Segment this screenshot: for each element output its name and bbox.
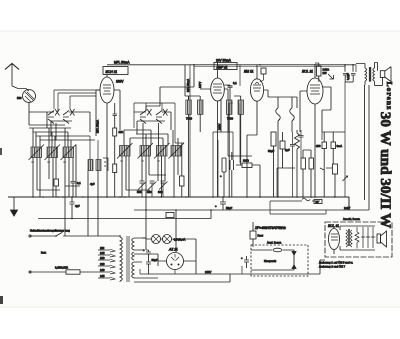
svg-text:ECH 11: ECH 11 xyxy=(106,70,118,74)
wire xyxy=(212,132,214,197)
wire xyxy=(142,238,149,250)
svg-text:kurz: kurz xyxy=(41,251,47,255)
wires around pair1 xyxy=(47,112,90,132)
coil block L3 xyxy=(63,147,74,158)
wire xyxy=(251,250,294,270)
wire xyxy=(185,65,189,100)
svg-text:10k: 10k xyxy=(119,130,124,134)
wire xyxy=(175,142,184,144)
wire xyxy=(310,85,320,94)
IF transformer A xyxy=(186,100,192,114)
svg-text:Änderung 1 auf ÖN 5 und w.: Änderung 1 auf ÖN 5 und w. xyxy=(319,260,353,264)
tube ECH11 xyxy=(100,77,114,103)
svg-text:6mA: 6mA xyxy=(337,144,343,148)
trimmer arrow pair 2b xyxy=(163,109,168,116)
svg-text:240V: 240V xyxy=(205,270,211,274)
resistor R1 xyxy=(54,179,59,186)
small coil risers xyxy=(90,136,98,160)
trimmer arrow pair 2 xyxy=(147,109,152,116)
svg-text:30: 30 xyxy=(47,160,50,164)
wire xyxy=(344,82,346,132)
wire xyxy=(345,81,353,83)
small box xyxy=(280,141,285,149)
triode electrodes pair 2b xyxy=(156,111,162,124)
transformer top wires xyxy=(356,63,378,69)
horizontal links xyxy=(213,103,252,163)
svg-text:AZ 11: AZ 11 xyxy=(168,248,178,252)
tuning arrow C2 xyxy=(138,143,154,159)
trimmer cap 1 xyxy=(138,181,147,197)
right side verticals xyxy=(365,85,370,210)
tuning arrow C4 xyxy=(169,143,185,159)
+ cap near dashed box xyxy=(244,256,249,268)
output transformer core xyxy=(369,67,371,82)
node wire from antenna coil xyxy=(29,112,47,125)
wire xyxy=(333,226,335,254)
resistor R-out2 xyxy=(309,158,314,169)
svg-text:7000: 7000 xyxy=(227,117,233,121)
terminal bracket xyxy=(103,158,108,171)
svg-text:0,1µF: 0,1µF xyxy=(346,73,350,80)
svg-text:0,15/0,95A: 0,15/0,95A xyxy=(55,266,68,270)
wire xyxy=(153,236,159,242)
svg-text:500: 500 xyxy=(147,190,152,194)
wire xyxy=(247,65,257,197)
wire xyxy=(149,174,166,176)
svg-text:7000: 7000 xyxy=(186,117,192,121)
wire xyxy=(114,173,116,198)
ground symbol xyxy=(11,197,18,216)
wire xyxy=(323,132,325,197)
svg-text:2W: 2W xyxy=(323,71,327,75)
wire xyxy=(189,96,201,197)
wire xyxy=(164,236,170,242)
tuning arrow L3 xyxy=(61,145,77,161)
left column lower component xyxy=(113,164,117,173)
wire xyxy=(322,87,331,132)
svg-text:30: 30 xyxy=(141,159,144,163)
svg-text:107V: 107V xyxy=(198,82,202,88)
wire xyxy=(331,234,338,240)
wire xyxy=(260,74,264,82)
svg-text:Anschl. Baust.: Anschl. Baust. xyxy=(343,217,360,221)
coil block C2 xyxy=(140,146,151,157)
wire xyxy=(349,229,350,246)
svg-text:30: 30 xyxy=(31,160,34,164)
svg-text:1µF: 1µF xyxy=(285,148,290,152)
wire xyxy=(282,132,284,168)
horizontal rails xyxy=(29,125,95,140)
zigzag resistor xyxy=(295,130,300,197)
tuning arrow L2 xyxy=(45,145,61,161)
wire xyxy=(293,250,295,270)
wire down from transformer xyxy=(364,81,367,85)
cap right of EBF xyxy=(224,85,232,100)
trimmer arrow pair 1 xyxy=(55,109,60,116)
wire xyxy=(134,274,230,282)
wire xyxy=(241,266,243,274)
svg-text:Änderung 2 und ÖN 7: Änderung 2 und ÖN 7 xyxy=(319,264,346,268)
wire xyxy=(218,63,222,198)
junction dot xyxy=(32,196,34,198)
svg-text:30 W und 30/II W: 30 W und 30/II W xyxy=(377,112,394,229)
svg-text:2x1V: 2x1V xyxy=(344,206,350,210)
svg-text:500: 500 xyxy=(137,190,142,194)
wire stub xyxy=(355,65,357,72)
junction dot xyxy=(167,253,184,270)
wire xyxy=(340,226,375,250)
diode detector xyxy=(328,74,334,79)
svg-text:4,5V/0,4A: 4,5V/0,4A xyxy=(174,238,186,242)
wire xyxy=(38,210,211,219)
wire xyxy=(314,65,316,197)
wire xyxy=(171,254,179,261)
wire xyxy=(229,96,241,197)
wire xyxy=(189,65,191,197)
svg-text:Ausf. Baust.: Ausf. Baust. xyxy=(267,241,282,245)
hook electrode b xyxy=(290,108,295,121)
tuning arrow C1 xyxy=(117,143,133,159)
svg-text:MFL 50mA: MFL 50mA xyxy=(186,79,190,92)
wire xyxy=(132,252,134,260)
wire xyxy=(106,75,108,198)
ground bus xyxy=(8,197,349,210)
wire xyxy=(194,66,345,68)
cap small x292 xyxy=(290,132,295,197)
svg-text:240Ω: 240Ω xyxy=(323,68,330,72)
EM11 anode cap box xyxy=(261,68,266,74)
svg-text:110: 110 xyxy=(100,246,105,250)
svg-text:30: 30 xyxy=(157,159,160,163)
triode electrodes pair 1b xyxy=(63,111,69,124)
svg-text:30: 30 xyxy=(120,159,123,163)
coil block L1 xyxy=(31,147,42,158)
riser wires to oscillator xyxy=(54,90,100,112)
antenna coil xyxy=(23,90,36,103)
wire xyxy=(110,249,115,280)
wire xyxy=(277,168,295,197)
junction dot xyxy=(171,264,173,266)
wire xyxy=(230,152,234,197)
wire xyxy=(253,82,261,91)
svg-text:25: 25 xyxy=(316,200,319,204)
trimmer cap 3 xyxy=(159,181,168,197)
wire xyxy=(320,168,332,170)
svg-text:Blaupunkt: Blaupunkt xyxy=(264,259,276,263)
svg-text:250: 250 xyxy=(316,144,321,148)
wire xyxy=(381,231,387,247)
output transformer primary coil xyxy=(365,68,367,81)
wire xyxy=(30,235,120,237)
speaker horn xyxy=(385,67,391,82)
wire xyxy=(361,236,375,238)
tuning arrow C3 xyxy=(154,143,170,159)
wire xyxy=(146,65,194,111)
svg-text:ECL 11: ECL 11 xyxy=(328,224,339,228)
horizontal rails center xyxy=(124,130,168,146)
cap on line 301 xyxy=(299,130,304,158)
wire xyxy=(236,163,260,197)
fuse 0,15/0,95A xyxy=(66,270,80,274)
outer loop wiring xyxy=(134,103,175,143)
wire xyxy=(132,238,134,250)
coil block C3 xyxy=(157,146,168,157)
tube ECL11 xyxy=(307,78,323,104)
wire xyxy=(181,143,183,197)
svg-text:500: 500 xyxy=(17,96,22,100)
output transformer secondary coil xyxy=(373,68,375,81)
50uF cap on bus xyxy=(220,197,226,210)
resistor boxes right xyxy=(301,158,306,169)
svg-text:4µF: 4µF xyxy=(75,204,80,208)
can 50uF xyxy=(271,132,276,146)
svg-text:ECL 11: ECL 11 xyxy=(302,70,313,74)
junction dot xyxy=(193,64,195,66)
wire xyxy=(134,209,369,211)
top bus xyxy=(107,64,356,66)
wire xyxy=(273,146,275,197)
wire xyxy=(114,136,116,164)
wire xyxy=(332,132,334,164)
resistor in box xyxy=(355,227,359,249)
bus lines right xyxy=(270,200,320,202)
wires around pair2 xyxy=(134,112,171,130)
svg-text:4µF: 4µF xyxy=(90,182,95,186)
svg-text:150: 150 xyxy=(100,256,105,260)
wire xyxy=(55,186,57,197)
svg-text:ZF=468/473/476kHz: ZF=468/473/476kHz xyxy=(254,226,286,230)
speaker magnet xyxy=(380,71,385,78)
wire xyxy=(232,132,234,160)
resistor 1M horizontal xyxy=(242,163,252,168)
capacitor C-ant xyxy=(71,182,76,198)
switch box 25 xyxy=(314,200,322,204)
svg-text:EBF 11: EBF 11 xyxy=(217,65,228,69)
wire xyxy=(146,262,151,274)
tube EBF11 xyxy=(211,78,225,101)
tube in box xyxy=(329,229,340,250)
wire xyxy=(158,252,196,274)
svg-text:Rest: Rest xyxy=(258,234,264,238)
svg-text:220: 220 xyxy=(100,262,105,266)
caps top right xyxy=(343,65,348,82)
wire xyxy=(134,238,158,278)
box mid right xyxy=(333,164,338,174)
svg-text:0,1: 0,1 xyxy=(233,81,237,85)
wire from coil down xyxy=(28,103,30,113)
left column cap xyxy=(113,103,118,128)
wire xyxy=(264,90,297,108)
speaker frame wires xyxy=(375,63,383,86)
svg-text:MFL 50mA: MFL 50mA xyxy=(114,61,130,65)
svg-text:0,1: 0,1 xyxy=(77,181,81,185)
pot arrow right xyxy=(343,176,348,181)
wire xyxy=(300,91,307,132)
tube envelope xyxy=(273,248,282,252)
triode electrodes pair 1 xyxy=(48,111,54,124)
antenna lead wire xyxy=(12,64,29,91)
primary taps xyxy=(98,250,110,278)
resistor mA xyxy=(331,142,336,149)
wire xyxy=(146,235,196,252)
wire xyxy=(96,90,100,136)
electrolytic pair xyxy=(222,158,226,197)
wire xyxy=(30,271,98,273)
IF transformer B xyxy=(227,100,233,114)
junction dot xyxy=(55,235,57,237)
small coil pair b xyxy=(96,160,101,171)
verticals into center coils xyxy=(146,123,178,146)
box on bus2 xyxy=(166,213,174,218)
IF transformer A coil b xyxy=(198,100,204,114)
svg-text:Lorenz: Lorenz xyxy=(385,82,394,111)
trimmer arrow pair 1b xyxy=(70,109,75,116)
wire xyxy=(315,63,319,82)
wire xyxy=(213,84,222,93)
svg-text:188V: 188V xyxy=(116,80,124,84)
wire xyxy=(174,270,176,275)
transformer in box xyxy=(346,230,348,247)
wire xyxy=(270,201,326,214)
junction dot xyxy=(163,235,172,244)
scan artifact bottom-left xyxy=(0,296,3,304)
svg-text:30: 30 xyxy=(63,160,66,164)
wire xyxy=(278,97,292,197)
drops to bottom section xyxy=(146,197,176,252)
svg-text:1MΩ: 1MΩ xyxy=(243,159,249,163)
speaker in box xyxy=(377,234,381,243)
svg-text:24V 50mA: 24V 50mA xyxy=(216,59,232,63)
wire xyxy=(56,233,62,237)
wire xyxy=(139,269,141,274)
label box EBF 11 xyxy=(214,63,237,70)
wire xyxy=(229,103,233,132)
svg-text:EM 11: EM 11 xyxy=(244,70,254,74)
svg-text:245: 245 xyxy=(100,274,105,278)
svg-text:50µF: 50µF xyxy=(226,206,233,210)
caps in box xyxy=(363,227,373,248)
svg-text:500: 500 xyxy=(158,190,163,194)
antenna coil hatching xyxy=(25,92,34,102)
wires below center coils xyxy=(122,156,178,197)
svg-text:125: 125 xyxy=(100,251,105,255)
wire xyxy=(303,150,311,197)
electrolytics xyxy=(146,250,151,262)
wire xyxy=(127,236,129,282)
wires below left coils xyxy=(33,145,98,237)
approx symbol + 25 xyxy=(302,198,310,201)
junction dot xyxy=(145,209,147,211)
triode electrodes pair 2 xyxy=(140,111,146,124)
small box Rest xyxy=(250,231,256,239)
dashed box ZF unit xyxy=(251,245,308,276)
bottom long line xyxy=(140,260,325,274)
svg-text:240: 240 xyxy=(100,268,105,272)
wire xyxy=(103,85,111,94)
wire xyxy=(334,174,336,197)
grid loop wires xyxy=(137,121,165,146)
svg-text:50µF: 50µF xyxy=(152,258,159,262)
wire xyxy=(114,90,120,130)
wire xyxy=(252,222,254,247)
resistor top xyxy=(317,66,322,76)
wire xyxy=(200,89,228,132)
resistor 10k xyxy=(180,176,185,186)
edge artifacts xyxy=(0,148,2,155)
label box ECH 11 xyxy=(103,67,128,75)
svg-text:50µF: 50µF xyxy=(268,149,275,153)
small coil pair xyxy=(88,160,93,171)
coil block L2 xyxy=(47,147,58,158)
left column resistor xyxy=(113,128,117,136)
wire xyxy=(217,140,219,197)
verticals into coils xyxy=(33,128,71,147)
wire xyxy=(351,65,356,82)
IF transformer B coil b xyxy=(238,100,244,114)
trimmer cap 2 xyxy=(148,181,157,197)
wire xyxy=(239,65,241,86)
wire xyxy=(132,262,134,278)
coil block C1 xyxy=(120,146,131,157)
wire xyxy=(119,236,121,282)
resistor 250 xyxy=(322,142,327,149)
grid loop wires xyxy=(51,121,72,140)
hook electrode a xyxy=(276,108,281,121)
wire xyxy=(292,252,296,269)
tuning arrow L1 xyxy=(29,145,45,161)
extra wires xyxy=(194,65,345,132)
wire xyxy=(351,230,353,247)
dash-dot box Anschl. Baust. xyxy=(325,222,392,257)
svg-text:Heizwiderstandsregulierung: la: Heizwiderstandsregulierung: lang xyxy=(30,229,70,233)
4uF cap left xyxy=(70,197,75,219)
tube envelope xyxy=(250,79,263,101)
label smudges under coils xyxy=(31,159,160,164)
junction dot xyxy=(178,264,180,266)
wire xyxy=(322,132,345,197)
coil block C4 xyxy=(171,146,181,157)
